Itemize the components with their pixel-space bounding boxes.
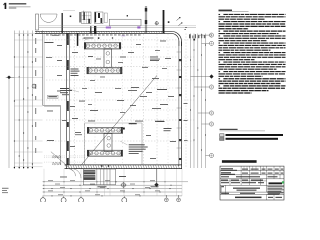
legend header with underline xyxy=(220,129,238,130)
lower group upper cooking bar xyxy=(87,127,122,133)
lower island cooking bar of upper group xyxy=(87,67,122,74)
sheet corner micro text bottom left xyxy=(2,187,9,190)
left datum line with diamond marker xyxy=(6,76,15,78)
dark blob right of wall xyxy=(168,21,170,23)
purple revision cloud marks xyxy=(106,27,111,29)
top-left pilaster rectangle xyxy=(36,14,39,30)
revision grid extra dividers top row xyxy=(243,166,245,170)
crosshair circle symbol xyxy=(155,22,158,25)
equipment box 2 xyxy=(95,12,104,24)
vertical wall at x62 xyxy=(62,13,63,33)
legend bar 1 xyxy=(226,134,284,136)
title block vertical dividers middle rows xyxy=(229,179,231,186)
logo address micro text block xyxy=(267,185,284,188)
stair block dark treads xyxy=(84,170,96,174)
column grid bubbles bottom xyxy=(42,196,44,198)
kitchen hood long rectangle xyxy=(109,19,141,26)
dark square above upper island xyxy=(98,37,100,39)
right vertical grid lines xyxy=(190,34,192,169)
right column grid bubbles xyxy=(198,34,210,36)
stamp glyph text right of plan xyxy=(189,34,191,38)
dark dot above hood xyxy=(127,15,128,16)
annotation arrows top right xyxy=(177,18,181,21)
upper island cooking bar xyxy=(84,43,121,50)
annex wall end dots xyxy=(101,165,102,166)
right datum diamond marker xyxy=(191,76,210,78)
dark square right of lower bar xyxy=(123,128,125,130)
title block sheet title text xyxy=(235,197,262,199)
bottom horizontal dimension lines xyxy=(43,181,189,183)
legend symbol square 2 xyxy=(220,138,224,141)
left dimension vertical text marks xyxy=(35,38,36,44)
door swing arc top-left xyxy=(40,14,57,22)
bottom dimension tick marks xyxy=(43,180,46,183)
left dimension arrowheads at bottom xyxy=(14,167,15,168)
small dark equipment square xyxy=(70,16,72,17)
left extension lines from plan xyxy=(14,32,42,34)
upper island connector counter xyxy=(104,49,112,67)
thick dark vertical wall x163 xyxy=(163,10,165,33)
small dark block on right grid line xyxy=(193,39,195,41)
legend bar 2 xyxy=(226,138,279,140)
title block central project text xyxy=(233,188,260,189)
left vertical dimension lines xyxy=(13,31,15,170)
legend symbol square 1 xyxy=(220,134,224,137)
lower group lower burners xyxy=(89,151,93,155)
dark key-plan bar above title block xyxy=(222,160,257,163)
dashed line inside right wall zone xyxy=(185,34,187,169)
upper island burners xyxy=(86,44,90,48)
lower group upper burners xyxy=(89,129,93,133)
logo wordmark with green dot xyxy=(269,182,283,184)
title block bottom right scale text xyxy=(268,197,273,198)
lower group lower cooking bar xyxy=(87,150,122,156)
title block left edge tiny marks xyxy=(220,186,223,194)
general notes header xyxy=(219,10,233,11)
drawing number 1 and title FLOOR PLAN with underline xyxy=(5,3,7,9)
double vertical line x146 xyxy=(144,6,146,33)
title block vertical dividers top rows xyxy=(240,166,242,175)
faint top edge marks xyxy=(63,9,75,11)
small dots near top right wall xyxy=(185,29,186,30)
circle marker on boundary xyxy=(32,84,36,88)
general notes text lines xyxy=(219,14,221,15)
left site boundary double line xyxy=(42,31,44,106)
right wall door jamb marks xyxy=(179,59,182,61)
grid bubbles with cross bottom right xyxy=(165,196,167,198)
equipment light strip x104 xyxy=(104,13,107,23)
title block horizontal rules xyxy=(220,170,284,172)
interior dark wall stub x77 xyxy=(77,33,79,46)
left wall poche segments xyxy=(67,33,69,45)
door swing arcs bottom left xyxy=(68,169,76,177)
lower group connector counter xyxy=(104,133,112,151)
sheet background xyxy=(0,0,288,202)
connector sinks upper xyxy=(106,52,110,56)
leader lines for labels xyxy=(69,89,79,92)
ramp label box xyxy=(48,95,59,98)
dark equipment bar in grid xyxy=(83,12,84,20)
dashed annotation row below top wall xyxy=(46,34,49,37)
long section diagonal line xyxy=(81,75,157,165)
right grid tick marks xyxy=(189,59,192,62)
connector sinks lower xyxy=(107,136,111,140)
upper group lower burners xyxy=(89,69,93,73)
left dimension tick marks xyxy=(14,57,15,58)
zigzag hatch marks left of bottom wall xyxy=(52,156,61,157)
bottom wall band double line xyxy=(65,164,183,166)
dark diamond marker on dimension line xyxy=(154,183,158,187)
site boundary step xyxy=(43,104,61,106)
right wall double line xyxy=(181,42,183,169)
interior dashed grid lines xyxy=(74,34,76,164)
bottom extension lines from plan xyxy=(43,169,45,196)
top wall rounded right end xyxy=(165,31,182,46)
equipment grid box xyxy=(82,12,92,24)
title block micro text cells xyxy=(221,168,233,169)
plan annotation text strips xyxy=(60,88,69,89)
title block outer frame xyxy=(220,166,284,200)
corner diagonal line xyxy=(51,152,73,171)
crosshair bubble on dimension line xyxy=(121,183,125,187)
title block vertical dividers bottom row xyxy=(266,194,268,200)
bottom dimension micro text xyxy=(48,179,53,182)
lower room enclosure walls xyxy=(84,123,86,165)
main left wall double line xyxy=(66,33,68,168)
equipment poche below band xyxy=(90,26,91,34)
top wall band double line with hatch xyxy=(35,30,165,32)
equipment dark bar x79 xyxy=(80,12,81,23)
horizontal service lines top xyxy=(39,25,196,27)
annex room outline xyxy=(83,169,115,185)
